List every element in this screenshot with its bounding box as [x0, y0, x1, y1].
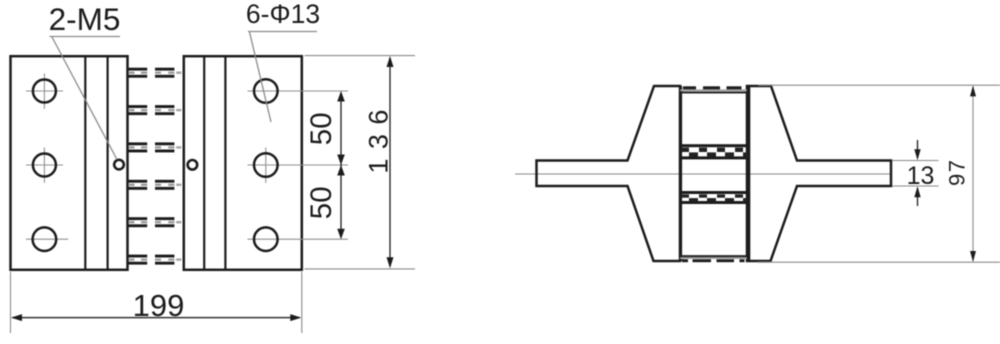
svg-text:97: 97	[945, 159, 970, 186]
svg-text:6-Φ13: 6-Φ13	[246, 0, 320, 29]
svg-text:50: 50	[305, 112, 338, 145]
svg-text:199: 199	[133, 288, 185, 323]
svg-text:13: 13	[907, 162, 935, 190]
svg-text:136: 136	[364, 100, 394, 174]
svg-text:2-M5: 2-M5	[49, 1, 121, 37]
svg-text:50: 50	[305, 186, 338, 219]
